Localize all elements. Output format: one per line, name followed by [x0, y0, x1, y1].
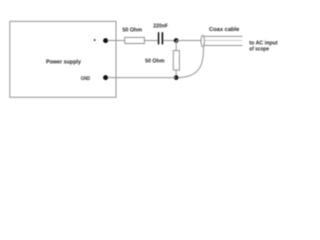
node A (junction dot) [174, 38, 179, 43]
wire: terminal to R1 [108, 40, 125, 42]
wire: C1 to node A [163, 40, 176, 42]
svg-text:GND: GND [81, 76, 90, 82]
svg-text:Coax cable: Coax cable [209, 26, 240, 33]
wire: R1 to C1 [144, 40, 157, 42]
resistor R2 50 Ohm (shunt, vertical) [173, 51, 179, 71]
terminal node GND [103, 75, 108, 80]
svg-text:of scope: of scope [249, 46, 269, 53]
terminal node + (positive output) [103, 38, 108, 43]
coax cable center conductor (faint) [205, 39, 242, 41]
svg-text:50 Ohm: 50 Ohm [145, 58, 164, 65]
wire: coax shield curve to node B [178, 46, 204, 77]
svg-text:50 Ohm: 50 Ohm [122, 27, 142, 34]
coax cable top line [203, 35, 242, 37]
wire: node A to coax [176, 40, 201, 42]
plus mark (tiny) [94, 39, 96, 41]
svg-text:to AC input: to AC input [249, 39, 277, 46]
node B (ground junction dot) [174, 75, 179, 80]
wire: node A down to R2 [175, 41, 177, 51]
capacitor C1 220nF plate 1 [158, 32, 160, 44]
wire: GND terminal to node B [108, 77, 177, 79]
coax cable end cap (ellipse) [201, 35, 204, 46]
svg-text:220nF: 220nF [153, 24, 168, 30]
capacitor C1 220nF plate 2 [162, 32, 164, 44]
svg-text:Power supply: Power supply [46, 59, 82, 66]
coax cable bottom line [204, 45, 243, 47]
wire: R2 to node B [175, 70, 177, 78]
resistor R1 50 Ohm (series, horizontal) [125, 37, 145, 43]
power supply box [10, 21, 116, 97]
